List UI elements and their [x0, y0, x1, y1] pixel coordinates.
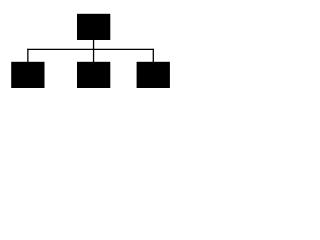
node middle box — [77, 62, 110, 88]
node left box — [11, 62, 44, 88]
wire vertical to left box — [27, 49, 29, 63]
node top box — [77, 14, 110, 40]
wire horizontal bus — [27, 48, 154, 50]
wire vertical from top box to bus — [93, 40, 95, 51]
wire vertical to middle box — [93, 49, 95, 63]
node right box — [137, 62, 170, 88]
wire vertical to right box — [152, 49, 154, 63]
